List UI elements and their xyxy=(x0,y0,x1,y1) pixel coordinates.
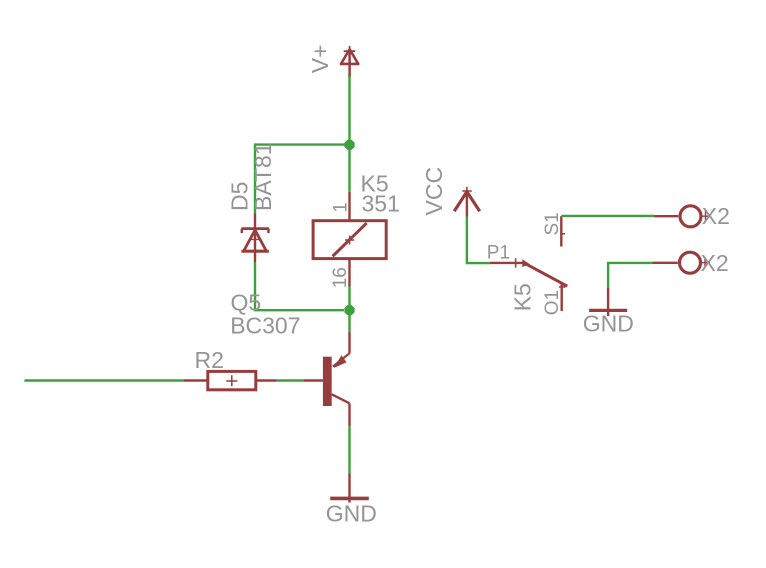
relay contact K5 xyxy=(490,216,568,311)
svg-text:P1: P1 xyxy=(487,243,510,264)
wire V+ to junction xyxy=(348,76,350,141)
ground GND right xyxy=(589,287,627,316)
svg-text:X2: X2 xyxy=(702,203,730,229)
svg-text:BC307: BC307 xyxy=(230,312,300,338)
wire left net xyxy=(24,379,183,381)
junction A xyxy=(344,140,354,150)
wire VCC to contact P1 xyxy=(467,217,490,264)
pad X2 bottom xyxy=(653,252,711,273)
svg-text:GND: GND xyxy=(326,500,377,526)
svg-text:K5: K5 xyxy=(510,283,536,311)
svg-text:1: 1 xyxy=(331,202,352,213)
svg-text:GND: GND xyxy=(583,310,634,336)
wire junction to diode branch top xyxy=(255,145,350,214)
relay coil K5 xyxy=(313,192,386,287)
svg-text:BAT81: BAT81 xyxy=(250,142,276,211)
wire S1 to pad X2 top xyxy=(561,215,654,217)
svg-text:V+: V+ xyxy=(307,44,333,73)
wire diode bottom to junction B xyxy=(255,262,344,310)
ground GND main xyxy=(330,474,369,503)
svg-text:D5: D5 xyxy=(227,182,253,211)
wire collector to ground xyxy=(348,426,350,473)
power symbol V+ xyxy=(340,46,360,77)
wire junction to relay pin 1 xyxy=(348,148,350,192)
pad X2 top xyxy=(654,206,710,227)
svg-text:S1: S1 xyxy=(542,212,563,235)
svg-text:351: 351 xyxy=(362,191,400,217)
svg-text:16: 16 xyxy=(330,267,351,288)
diode D5 xyxy=(241,214,269,263)
wire relay pin 16 to junction B xyxy=(348,287,350,307)
resistor R2 xyxy=(183,371,276,389)
svg-text:R2: R2 xyxy=(195,347,224,373)
transistor Q5 xyxy=(303,332,349,426)
wire base to resistor xyxy=(277,379,304,381)
wire junction B to transistor emitter xyxy=(348,314,350,332)
svg-text:O1: O1 xyxy=(542,290,563,315)
svg-text:X2: X2 xyxy=(701,250,729,276)
junction B xyxy=(344,305,354,315)
svg-text:VCC: VCC xyxy=(421,167,447,216)
wire pad X2 bottom to ground branch xyxy=(608,263,652,287)
power symbol VCC xyxy=(454,187,480,217)
